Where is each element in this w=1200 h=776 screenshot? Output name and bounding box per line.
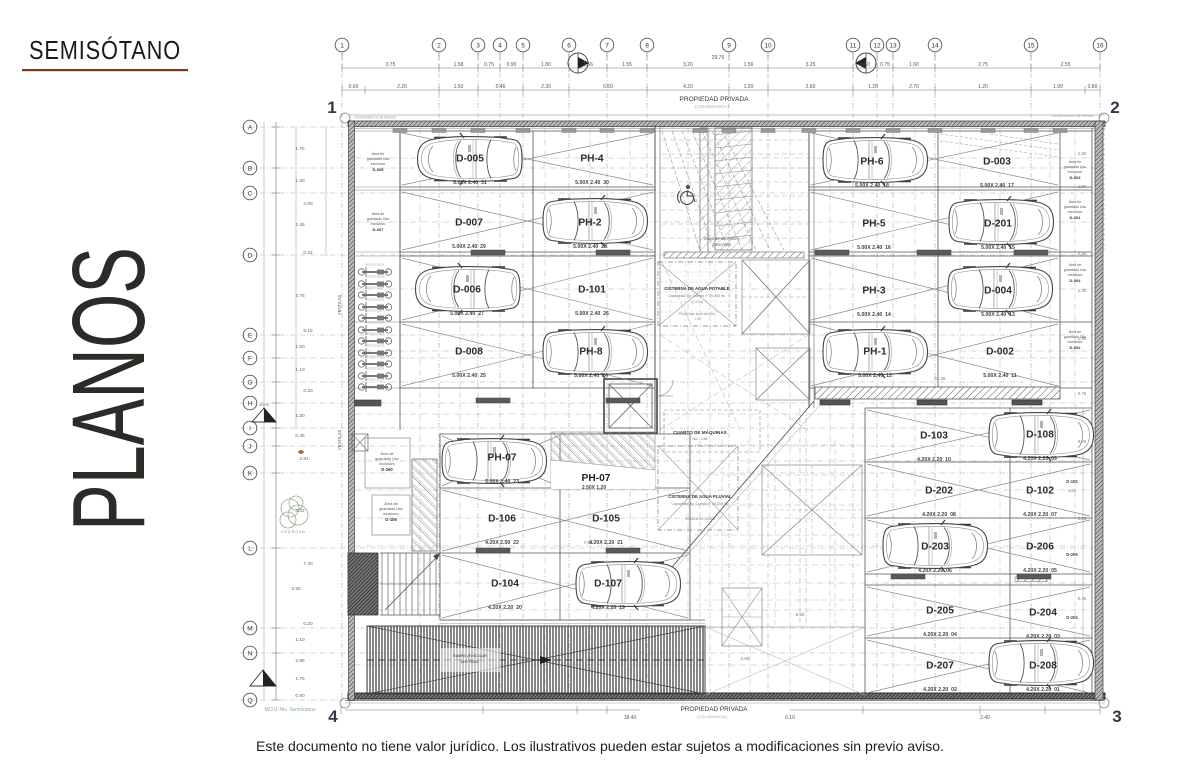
- svg-text:2.60: 2.60: [806, 84, 816, 90]
- parking stall D-201 with car: [949, 196, 1054, 251]
- svg-text:5.00X 2.40 30: 5.00X 2.40 30: [575, 180, 609, 186]
- svg-text:6: 6: [567, 43, 571, 50]
- svg-text:1.50: 1.50: [1078, 336, 1087, 341]
- svg-text:5.00X 2.40 28: 5.00X 2.40 28: [573, 244, 607, 250]
- svg-text:5.00X 2.40 24: 5.00X 2.40 24: [574, 373, 608, 379]
- svg-text:D-202: D-202: [925, 486, 953, 497]
- svg-text:D-208: D-208: [1029, 661, 1057, 672]
- svg-text:D-206: D-206: [1026, 542, 1054, 553]
- walkway wheel stops: [820, 400, 850, 405]
- svg-text:4.20X 2.20 09: 4.20X 2.20 09: [1023, 456, 1057, 462]
- svg-text:1.90: 1.90: [1078, 184, 1087, 189]
- svg-text:D-004: D-004: [984, 286, 1012, 297]
- svg-text:PH-1: PH-1: [863, 347, 887, 358]
- elevator shaft: [604, 379, 657, 433]
- grid bubble 7: [600, 38, 614, 52]
- svg-text:6.60: 6.60: [1068, 488, 1077, 493]
- svg-text:4.20X 2.20 04: 4.20X 2.20 04: [923, 632, 957, 638]
- svg-text:13: 13: [889, 43, 897, 50]
- parking stall D-106: [485, 514, 519, 547]
- svg-text:1.30: 1.30: [1078, 151, 1087, 156]
- svg-text:D-007: D-007: [455, 218, 483, 229]
- grid bubble 1: [335, 38, 349, 52]
- grid bubble 12: [870, 38, 884, 52]
- svg-text:5.00X 2.40 25: 5.00X 2.40 25: [452, 373, 486, 379]
- svg-text:51.35: 51.35: [934, 376, 946, 381]
- D-003 corner dashed detail: [940, 134, 1058, 157]
- svg-text:0.80: 0.80: [1088, 84, 1098, 90]
- svg-text:4.20X 2.20 21: 4.20X 2.20 21: [589, 540, 623, 546]
- svg-text:0.22: 0.22: [303, 250, 313, 256]
- parking stall D-104: [488, 579, 522, 612]
- svg-text:1.35: 1.35: [1078, 288, 1087, 293]
- svg-text:Área de: Área de: [372, 212, 385, 216]
- svg-text:D-006: D-006: [453, 285, 481, 296]
- svg-text:1.55: 1.55: [622, 62, 632, 68]
- svg-text:3.75: 3.75: [295, 293, 305, 299]
- svg-text:Área de: Área de: [1069, 200, 1082, 204]
- svg-text:0.30: 0.30: [1078, 439, 1087, 444]
- svg-text:D-102: D-102: [1066, 479, 1078, 484]
- parking stall PH-8 with car: [543, 326, 648, 379]
- interior structural lines upper-left block: [400, 130, 655, 132]
- grid bubble 14: [928, 38, 942, 52]
- svg-text:COLINDANCIA CON PREDIO: COLINDANCIA CON PREDIO: [354, 116, 397, 120]
- svg-text:4.20X 2.20 05: 4.20X 2.20 05: [1023, 568, 1057, 574]
- svg-text:4.00: 4.00: [303, 201, 313, 207]
- motorcycle 8: [358, 348, 391, 358]
- svg-text:guardado Uso: guardado Uso: [367, 157, 390, 161]
- stairs treads: [382, 553, 436, 615]
- svg-text:6.10: 6.10: [785, 715, 795, 721]
- stairs diagonal arrow: [385, 558, 436, 610]
- svg-text:D-005: D-005: [456, 154, 484, 165]
- central stair block hatched strip: [715, 128, 752, 250]
- svg-text:K: K: [248, 471, 253, 478]
- svg-text:D-002: D-002: [986, 347, 1014, 358]
- outer left wall: [349, 121, 355, 700]
- svg-text:1.60: 1.60: [909, 62, 919, 68]
- grid bubble E: [243, 328, 257, 342]
- svg-text:D-008: D-008: [455, 347, 483, 358]
- svg-text:D-003: D-003: [1070, 175, 1082, 180]
- left strip notes upper: [367, 152, 390, 172]
- svg-text:2.81: 2.81: [299, 456, 309, 462]
- crossed square right of cistern: [742, 260, 810, 334]
- svg-text:8: 8: [645, 43, 649, 50]
- stall PH-07 hatched: [551, 432, 655, 491]
- svg-text:0.75: 0.75: [880, 62, 890, 68]
- svg-text:1.75: 1.75: [295, 146, 305, 152]
- svg-text:exclusivo: exclusivo: [1068, 170, 1083, 174]
- svg-text:D-007: D-007: [373, 227, 385, 232]
- svg-text:D-206: D-206: [1066, 552, 1078, 557]
- svg-text:guardado Uso: guardado Uso: [379, 507, 403, 511]
- interior structural lines lower-right block: [865, 407, 1092, 409]
- title underline: [22, 69, 188, 71]
- svg-text:SEMISÓTANO: SEMISÓTANO: [29, 35, 181, 65]
- svg-text:0.75: 0.75: [1078, 391, 1087, 396]
- svg-text:D-105: D-105: [592, 514, 620, 525]
- svg-text:Zona de ascenso y: Zona de ascenso y: [704, 236, 740, 241]
- svg-text:5: 5: [521, 43, 525, 50]
- svg-text:Área de: Área de: [384, 502, 397, 506]
- svg-text:0.30: 0.30: [1078, 251, 1087, 256]
- svg-text:2.55: 2.55: [1061, 62, 1071, 68]
- svg-text:5.00X 2.40 16: 5.00X 2.40 16: [857, 245, 891, 251]
- svg-text:PH-5: PH-5: [862, 219, 886, 230]
- svg-text:N: N: [248, 651, 253, 658]
- svg-text:5.00X 3.40 23: 5.00X 3.40 23: [485, 479, 519, 485]
- handicap symbol: [678, 185, 696, 205]
- svg-text:D-204: D-204: [1029, 608, 1057, 619]
- hatched strip next to stairs: [412, 459, 437, 551]
- svg-text:H: H: [248, 401, 253, 408]
- parking stall D-102: [1023, 486, 1057, 519]
- big crossed square lower middle: [762, 465, 862, 555]
- svg-text:2.75: 2.75: [978, 62, 988, 68]
- parking stall PH-3: [857, 286, 891, 319]
- svg-text:1: 1: [340, 43, 344, 50]
- svg-text:3: 3: [1112, 707, 1121, 726]
- svg-text:4.20X 2.20 01: 4.20X 2.20 01: [1026, 687, 1060, 693]
- svg-text:0.45: 0.45: [295, 433, 305, 439]
- parking stall D-202: [922, 486, 956, 519]
- svg-text:guardado Uso: guardado Uso: [367, 217, 390, 221]
- svg-text:PH-07: PH-07: [488, 453, 517, 464]
- small red plant mark: [298, 450, 304, 454]
- svg-text:D-104: D-104: [491, 579, 519, 590]
- svg-text:0.20: 0.20: [303, 388, 313, 394]
- svg-text:0.25: 0.25: [1078, 516, 1087, 521]
- svg-text:D-005: D-005: [373, 167, 385, 172]
- svg-text:L: L: [248, 546, 252, 553]
- grid bubble 4: [493, 38, 507, 52]
- svg-text:5.00X 2.40 14: 5.00X 2.40 14: [857, 312, 891, 318]
- svg-text:2.65: 2.65: [741, 656, 750, 661]
- grid bubble N: [243, 646, 257, 660]
- internal dashed texture lines: [355, 128, 1093, 695]
- parking stall D-103: [917, 431, 951, 464]
- corridor narrow wall strip: [700, 128, 708, 258]
- svg-text:D-102: D-102: [1026, 486, 1054, 497]
- svg-text:PROPIEDAD PRIVADA: PROPIEDAD PRIVADA: [681, 706, 749, 713]
- upper walkway hatched bar: [815, 387, 1060, 399]
- area guardado box G-106: [372, 495, 410, 535]
- svg-text:D-106: D-106: [488, 514, 516, 525]
- svg-text:D-003: D-003: [983, 157, 1011, 168]
- motorcycle 3: [358, 290, 391, 300]
- svg-text:MOTOCICLETA: MOTOCICLETA: [366, 344, 385, 348]
- parking stall PH-4: [575, 154, 609, 187]
- elevator door swing arc: [657, 380, 673, 396]
- svg-text:3: 3: [476, 43, 480, 50]
- benchmark triangle upper: [252, 402, 276, 422]
- svg-text:D-107: D-107: [594, 579, 622, 590]
- svg-text:4.20X 2.20 08: 4.20X 2.20 08: [922, 512, 956, 518]
- column grid dashed lines: [342, 53, 1100, 703]
- motorcycle 1: [358, 267, 391, 277]
- stall pair X markings: [402, 133, 1090, 693]
- svg-text:4.20X 2.20 06: 4.20X 2.20 06: [918, 568, 952, 574]
- svg-text:2: 2: [1110, 98, 1119, 117]
- svg-text:PH-4: PH-4: [580, 154, 604, 165]
- grid bubble M: [243, 621, 257, 635]
- svg-text:C E D R O 4 m: C E D R O 4 m: [281, 530, 305, 534]
- stall divider verticals upper: [399, 131, 401, 388]
- svg-text:2.86: 2.86: [295, 658, 305, 664]
- svg-text:PLANOS: PLANOS: [51, 247, 166, 531]
- grid bubble K: [243, 466, 257, 480]
- svg-text:D-101: D-101: [578, 285, 606, 296]
- svg-text:MOTOCICLETA: MOTOCICLETA: [366, 286, 385, 290]
- motorcycle 4: [358, 302, 391, 312]
- svg-text:1: 1: [327, 98, 336, 117]
- svg-text:exclusivo: exclusivo: [371, 222, 386, 226]
- svg-text:MOTOCICLETA: MOTOCICLETA: [366, 298, 385, 302]
- svg-text:D-004: D-004: [1070, 278, 1082, 283]
- svg-text:1.20: 1.20: [868, 84, 878, 90]
- interior structural lines upper-right block: [809, 130, 1092, 132]
- svg-text:B: B: [248, 166, 252, 173]
- svg-text:1.10: 1.10: [295, 637, 305, 643]
- cisterna pluvial box: [658, 446, 738, 530]
- grid bubble A: [243, 120, 257, 134]
- svg-text:PH-8: PH-8: [579, 347, 603, 358]
- svg-text:Descenso: Descenso: [713, 242, 732, 247]
- PROPIEDAD PRIVADA bottom: [640, 704, 790, 714]
- svg-text:4.20: 4.20: [683, 84, 693, 90]
- svg-text:PH-6: PH-6: [860, 157, 884, 168]
- svg-text:guardado Uso: guardado Uso: [375, 457, 399, 461]
- svg-text:1.20: 1.20: [295, 178, 305, 184]
- svg-text:exclusivo: exclusivo: [379, 462, 395, 466]
- svg-text:D-160: D-160: [381, 467, 393, 472]
- svg-text:2.30: 2.30: [541, 84, 551, 90]
- svg-text:E: E: [248, 333, 253, 340]
- svg-text:COLINDANCIA CON PREDIO: COLINDANCIA CON PREDIO: [1051, 114, 1094, 118]
- svg-text:J: J: [248, 444, 251, 451]
- ramp center label: [440, 648, 500, 672]
- svg-text:PH-2: PH-2: [578, 218, 602, 229]
- svg-text:5.00X 2.40 15: 5.00X 2.40 15: [981, 245, 1015, 251]
- svg-text:MOTOCICLETA: MOTOCICLETA: [366, 367, 385, 371]
- svg-text:D-207: D-207: [926, 661, 954, 672]
- parking stall D-002: [983, 347, 1017, 380]
- left vertical dimension lines: [263, 122, 265, 700]
- svg-text:29.75: 29.75: [712, 55, 725, 61]
- svg-text:11: 11: [850, 43, 857, 50]
- svg-text:exclusivo: exclusivo: [371, 162, 386, 166]
- svg-text:BOMBA DE AGUA: BOMBA DE AGUA: [685, 517, 715, 521]
- svg-text:exclusivo: exclusivo: [1068, 210, 1083, 214]
- svg-text:15% PEND.: 15% PEND.: [460, 660, 479, 664]
- dimension chain row 2: [342, 89, 1100, 91]
- svg-text:5.00X 2.40 12: 5.00X 2.40 12: [858, 373, 892, 379]
- grid bubble 3: [471, 38, 485, 52]
- svg-text:2.40: 2.40: [980, 715, 990, 721]
- svg-text:0.46: 0.46: [496, 84, 506, 90]
- left wheel stop: [355, 400, 381, 406]
- svg-text:5.00X 2.40 29: 5.00X 2.40 29: [452, 244, 486, 250]
- svg-text:0.60: 0.60: [860, 62, 870, 68]
- grid bubble H: [243, 396, 257, 410]
- svg-text:15: 15: [1027, 43, 1035, 50]
- svg-text:0.45: 0.45: [1078, 596, 1087, 601]
- svg-text:A: A: [248, 125, 253, 132]
- svg-text:M: M: [247, 626, 252, 633]
- svg-text:D: D: [248, 253, 253, 260]
- svg-text:D-205: D-205: [926, 606, 954, 617]
- svg-text:VENTILAS: VENTILAS: [337, 430, 342, 450]
- svg-text:1.58: 1.58: [454, 62, 464, 68]
- outer right wall: [1095, 121, 1103, 700]
- svg-text:1.20: 1.20: [978, 84, 988, 90]
- svg-text:1.56: 1.56: [744, 62, 754, 68]
- parking stall D-208 with car: [989, 637, 1094, 693]
- svg-text:2.70: 2.70: [909, 84, 919, 90]
- svg-text:D-108: D-108: [1026, 430, 1054, 441]
- parking stall PH-2 with car: [543, 195, 648, 250]
- svg-text:exclusivo: exclusivo: [383, 512, 399, 516]
- svg-text:2: 2: [437, 43, 441, 50]
- svg-text:1.20: 1.20: [295, 413, 305, 419]
- grid bubble 11: [846, 38, 860, 52]
- parking stall D-105: [589, 514, 623, 547]
- svg-text:0.20: 0.20: [303, 621, 313, 627]
- svg-text:MOTOCICLETA: MOTOCICLETA: [366, 332, 385, 336]
- benchmark triangle lower: [250, 670, 276, 686]
- parking stall D-005 with car: [418, 133, 523, 186]
- svg-text:4.20X 2.20 07: 4.20X 2.20 07: [1023, 512, 1057, 518]
- middle column long dash diagonals: [660, 262, 808, 430]
- svg-text:-7.95: -7.95: [693, 317, 701, 321]
- parking stall PH-5: [857, 219, 891, 252]
- svg-text:3.25: 3.25: [806, 62, 816, 68]
- north arrow symbol right: [855, 53, 876, 73]
- left strip row lines: [355, 186, 400, 188]
- svg-text:guardado Uso: guardado Uso: [1064, 268, 1087, 272]
- grid bubble Q: [243, 693, 257, 707]
- svg-text:5.00X 2.40 27: 5.00X 2.40 27: [450, 311, 484, 317]
- svg-text:C: C: [248, 191, 253, 198]
- svg-text:F: F: [248, 356, 252, 363]
- grid bubble F: [243, 351, 257, 365]
- svg-text:D-204: D-204: [1066, 615, 1078, 620]
- motorcycle 6: [358, 325, 391, 335]
- svg-text:(COLINDANCIA): (COLINDANCIA): [695, 104, 729, 109]
- svg-text:18.40: 18.40: [624, 715, 637, 721]
- svg-text:1.56: 1.56: [583, 62, 593, 68]
- parking stall D-008: [452, 347, 486, 380]
- svg-text:Área de: Área de: [380, 452, 393, 456]
- svg-text:Área de: Área de: [1069, 263, 1082, 267]
- svg-text:5.00X 2.40 11: 5.00X 2.40 11: [983, 373, 1017, 379]
- area guardado box D-160: [365, 438, 410, 488]
- grid bubble B: [243, 161, 257, 175]
- svg-text:0.75: 0.75: [484, 62, 494, 68]
- svg-text:G: G: [247, 380, 252, 387]
- svg-text:D-103: D-103: [920, 431, 948, 442]
- svg-text:7.40: 7.40: [303, 561, 313, 567]
- svg-text:5.15: 5.15: [303, 328, 313, 334]
- parking stall D-206: [1023, 542, 1057, 575]
- svg-text:PH-3: PH-3: [862, 286, 886, 297]
- svg-text:0.60: 0.60: [349, 84, 359, 90]
- grid bubble 5: [516, 38, 530, 52]
- svg-text:6.90: 6.90: [796, 612, 805, 617]
- left service strip line: [399, 131, 401, 430]
- svg-text:guardado Uso: guardado Uso: [1064, 165, 1087, 169]
- crossed square below: [756, 348, 810, 400]
- corridor walls center: [654, 125, 656, 434]
- parking stall PH-07 with car: [442, 435, 547, 487]
- svg-text:PROPIEDAD PRIVADA: PROPIEDAD PRIVADA: [679, 96, 749, 103]
- entrance ramp hatched: [367, 626, 705, 694]
- stairs dark block: [348, 553, 378, 615]
- svg-text:5.00X 2.40 31: 5.00X 2.40 31: [453, 180, 487, 186]
- svg-text:4: 4: [498, 43, 502, 50]
- svg-text:10: 10: [764, 43, 772, 50]
- parking stall D-006 with car: [416, 263, 521, 317]
- svg-text:Área de: Área de: [1069, 160, 1082, 164]
- svg-text:MOTOCICLETA: MOTOCICLETA: [366, 309, 385, 313]
- svg-text:±0.00: ±0.00: [259, 402, 270, 407]
- grid bubble 13: [886, 38, 900, 52]
- svg-text:Área de: Área de: [1069, 330, 1082, 334]
- small crossed box lower middle: [722, 588, 762, 646]
- svg-text:3.50: 3.50: [291, 586, 301, 592]
- svg-text:I: I: [249, 426, 251, 433]
- north arrow symbol left: [568, 53, 589, 73]
- interior structural lines lower-left block: [440, 433, 690, 435]
- svg-text:4: 4: [328, 707, 338, 726]
- landing bar: [664, 252, 804, 258]
- svg-text:G-106: G-106: [385, 517, 397, 522]
- cisterna agua potable box: [658, 262, 736, 326]
- svg-text:MOTOCICLETA: MOTOCICLETA: [366, 321, 385, 325]
- svg-text:guardado Uso: guardado Uso: [1064, 205, 1087, 209]
- grid bubble 9: [722, 38, 736, 52]
- parking stall D-204: [1026, 608, 1060, 641]
- small crossed footing box: [352, 434, 368, 451]
- grid bubble G: [243, 375, 257, 389]
- svg-text:2.20: 2.20: [397, 84, 407, 90]
- svg-text:MOTOCICLETA: MOTOCICLETA: [366, 378, 385, 382]
- corridor diagonal stair strips: [662, 131, 784, 250]
- parking stall D-007: [452, 218, 486, 251]
- grid bubble L: [243, 541, 257, 555]
- parking stall D-205: [923, 606, 957, 639]
- motorcycle 9: [358, 359, 391, 369]
- svg-text:MOTOCICLETA: MOTOCICLETA: [366, 275, 385, 279]
- outer top wall: [348, 121, 1105, 127]
- dimension chain row 1: [342, 67, 1100, 69]
- parking stall PH-1 with car: [823, 326, 928, 379]
- svg-text:1.80: 1.80: [541, 62, 551, 68]
- wheel stop bars: [471, 250, 505, 255]
- grid bubble 16: [1093, 38, 1107, 52]
- ramp diagonal line: [667, 401, 814, 573]
- grid bubble I: [243, 421, 257, 435]
- tree symbol: [280, 496, 308, 528]
- svg-text:2.50X 1.20: 2.50X 1.20: [582, 485, 606, 491]
- svg-text:PH-07: PH-07: [582, 473, 611, 484]
- svg-text:0.90: 0.90: [507, 62, 517, 68]
- svg-text:6.50: 6.50: [603, 84, 613, 90]
- parking stall D-108 with car: [989, 409, 1094, 462]
- svg-text:4.20X 2.20 19: 4.20X 2.20 19: [591, 605, 625, 611]
